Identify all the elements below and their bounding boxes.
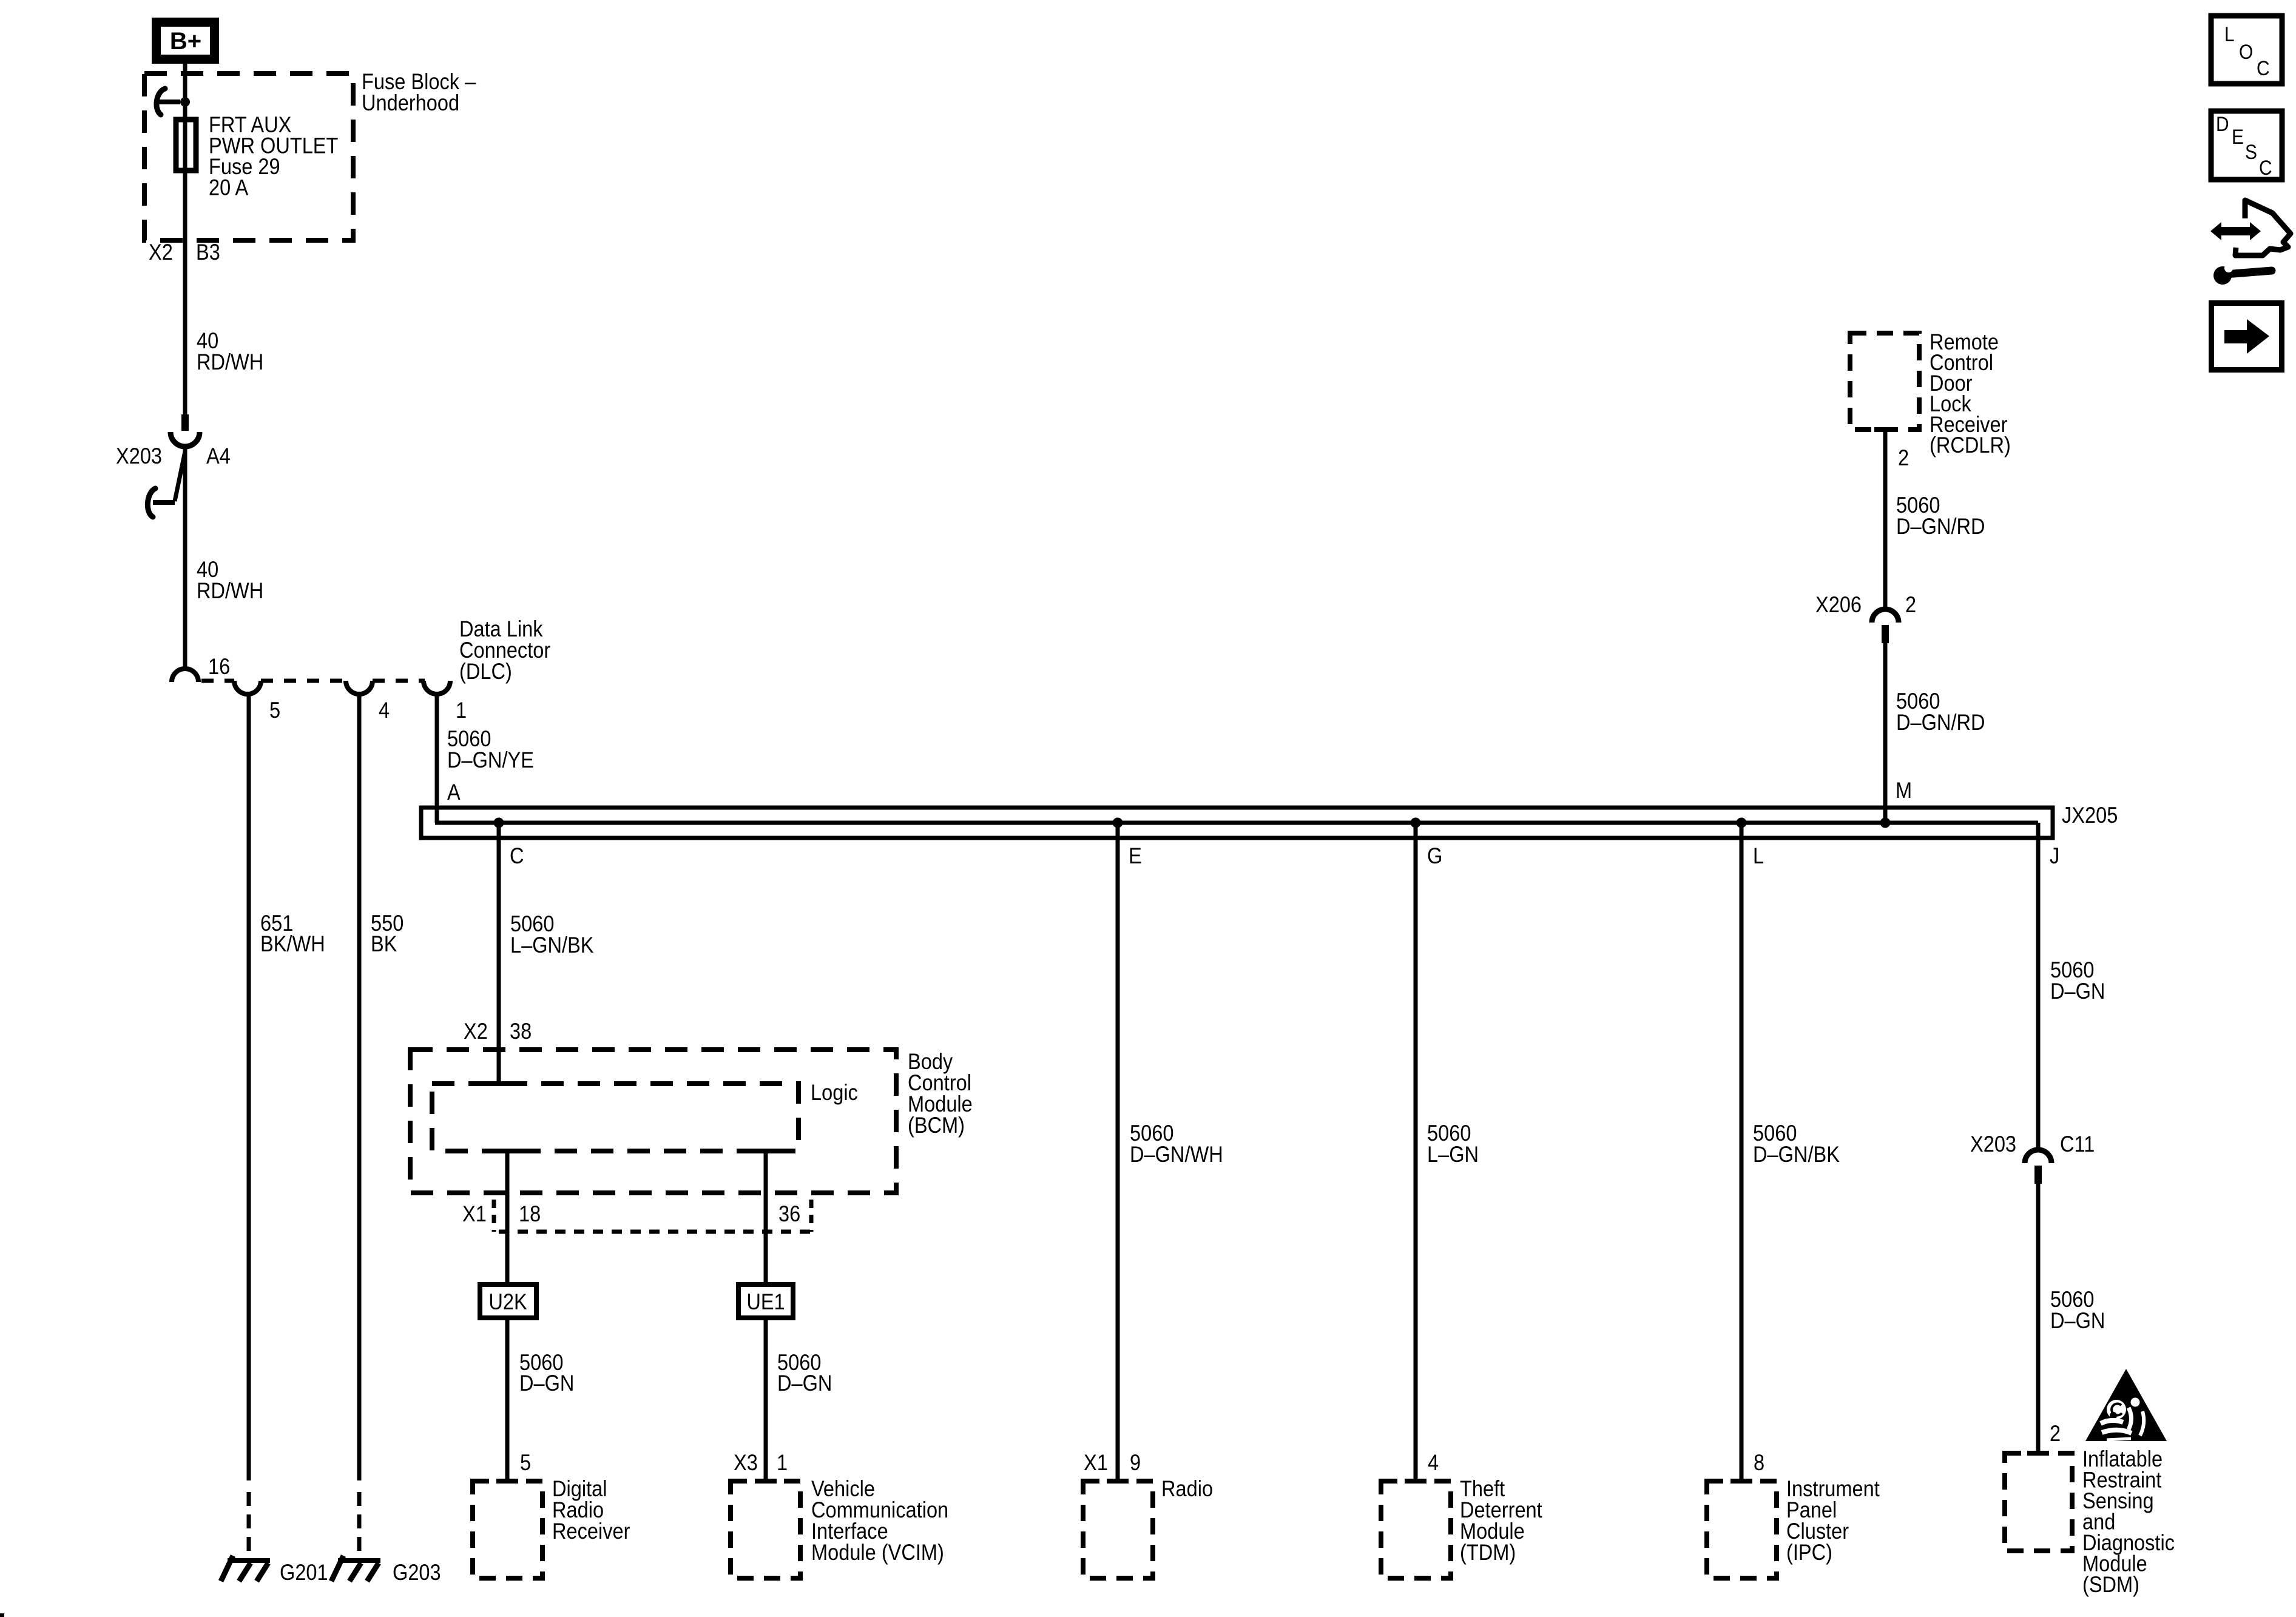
svg-text:A: A <box>447 780 461 805</box>
svg-text:RD/WH: RD/WH <box>197 349 263 374</box>
svg-text:(IPC): (IPC) <box>1786 1540 1832 1565</box>
svg-text:BK/WH: BK/WH <box>260 931 325 956</box>
svg-text:4: 4 <box>1428 1450 1439 1475</box>
svg-text:O: O <box>2239 40 2253 63</box>
svg-text:X2: X2 <box>464 1019 488 1044</box>
svg-text:D–GN: D–GN <box>2050 979 2105 1004</box>
svg-text:D–GN/RD: D–GN/RD <box>1896 514 1985 539</box>
svg-text:G: G <box>1427 843 1442 868</box>
svg-text:C: C <box>510 843 524 868</box>
svg-text:D–GN/YE: D–GN/YE <box>447 748 534 772</box>
svg-text:1: 1 <box>777 1450 788 1475</box>
svg-text:(DLC): (DLC) <box>459 659 512 684</box>
svg-text:D–GN/BK: D–GN/BK <box>1753 1142 1840 1167</box>
svg-text:E: E <box>2232 125 2244 148</box>
svg-text:Logic: Logic <box>811 1080 858 1105</box>
svg-text:M: M <box>1896 778 1912 803</box>
svg-text:X1: X1 <box>1084 1450 1108 1475</box>
svg-text:(SDM): (SDM) <box>2082 1572 2139 1597</box>
svg-text:D: D <box>2216 112 2229 135</box>
svg-text:X206: X206 <box>1815 592 1862 617</box>
svg-text:D–GN: D–GN <box>777 1371 832 1396</box>
svg-text:G201: G201 <box>280 1560 328 1585</box>
svg-text:G203: G203 <box>393 1560 441 1585</box>
svg-text:Module (VCIM): Module (VCIM) <box>811 1540 944 1565</box>
svg-text:D–GN/RD: D–GN/RD <box>1896 710 1985 735</box>
svg-text:X1: X1 <box>462 1201 487 1226</box>
svg-text:2: 2 <box>1898 445 1909 470</box>
svg-text:X203: X203 <box>116 444 162 468</box>
svg-text:X2: X2 <box>149 240 173 265</box>
svg-text:8: 8 <box>1754 1450 1764 1475</box>
svg-text:D–GN: D–GN <box>519 1371 574 1396</box>
svg-text:4: 4 <box>379 698 390 723</box>
svg-text:1: 1 <box>456 698 467 723</box>
svg-text:C: C <box>2259 156 2272 179</box>
svg-text:B+: B+ <box>170 28 201 55</box>
svg-text:2: 2 <box>2050 1421 2061 1446</box>
svg-text:S: S <box>2245 140 2257 163</box>
svg-text:(BCM): (BCM) <box>908 1113 965 1138</box>
svg-text:X3: X3 <box>734 1450 758 1475</box>
svg-text:20 A: 20 A <box>209 175 249 200</box>
svg-text:RD/WH: RD/WH <box>197 578 263 603</box>
svg-text:J: J <box>2050 843 2059 868</box>
svg-text:X203: X203 <box>1970 1132 2016 1156</box>
svg-text:E: E <box>1129 843 1142 868</box>
svg-text:U2K: U2K <box>488 1289 527 1314</box>
svg-text:Receiver: Receiver <box>552 1519 630 1544</box>
svg-text:B3: B3 <box>196 240 220 265</box>
svg-text:(TDM): (TDM) <box>1460 1540 1516 1565</box>
svg-text:D–GN/WH: D–GN/WH <box>1130 1142 1223 1167</box>
svg-text:36: 36 <box>778 1201 800 1226</box>
svg-text:BK: BK <box>371 931 397 956</box>
svg-text:L: L <box>1753 843 1764 868</box>
svg-text:Radio: Radio <box>1161 1476 1213 1501</box>
svg-text:9: 9 <box>1130 1450 1141 1475</box>
svg-text:D–GN: D–GN <box>2050 1308 2105 1333</box>
svg-text:C11: C11 <box>2060 1132 2095 1156</box>
svg-text:18: 18 <box>519 1201 541 1226</box>
svg-text:2: 2 <box>1905 592 1916 617</box>
svg-text:L–GN: L–GN <box>1427 1142 1479 1167</box>
svg-text:(RCDLR): (RCDLR) <box>1930 433 2011 457</box>
svg-text:UE1: UE1 <box>746 1289 785 1314</box>
svg-text:Underhood: Underhood <box>362 90 459 115</box>
svg-text:5: 5 <box>269 698 280 723</box>
svg-text:C: C <box>2257 56 2270 79</box>
svg-text:JX205: JX205 <box>2062 803 2118 828</box>
svg-text:5: 5 <box>520 1450 531 1475</box>
svg-text:38: 38 <box>510 1019 532 1044</box>
svg-text:A4: A4 <box>206 444 231 468</box>
svg-text:L–GN/BK: L–GN/BK <box>510 933 594 957</box>
svg-text:L: L <box>2224 22 2235 46</box>
svg-text:16: 16 <box>208 654 230 679</box>
